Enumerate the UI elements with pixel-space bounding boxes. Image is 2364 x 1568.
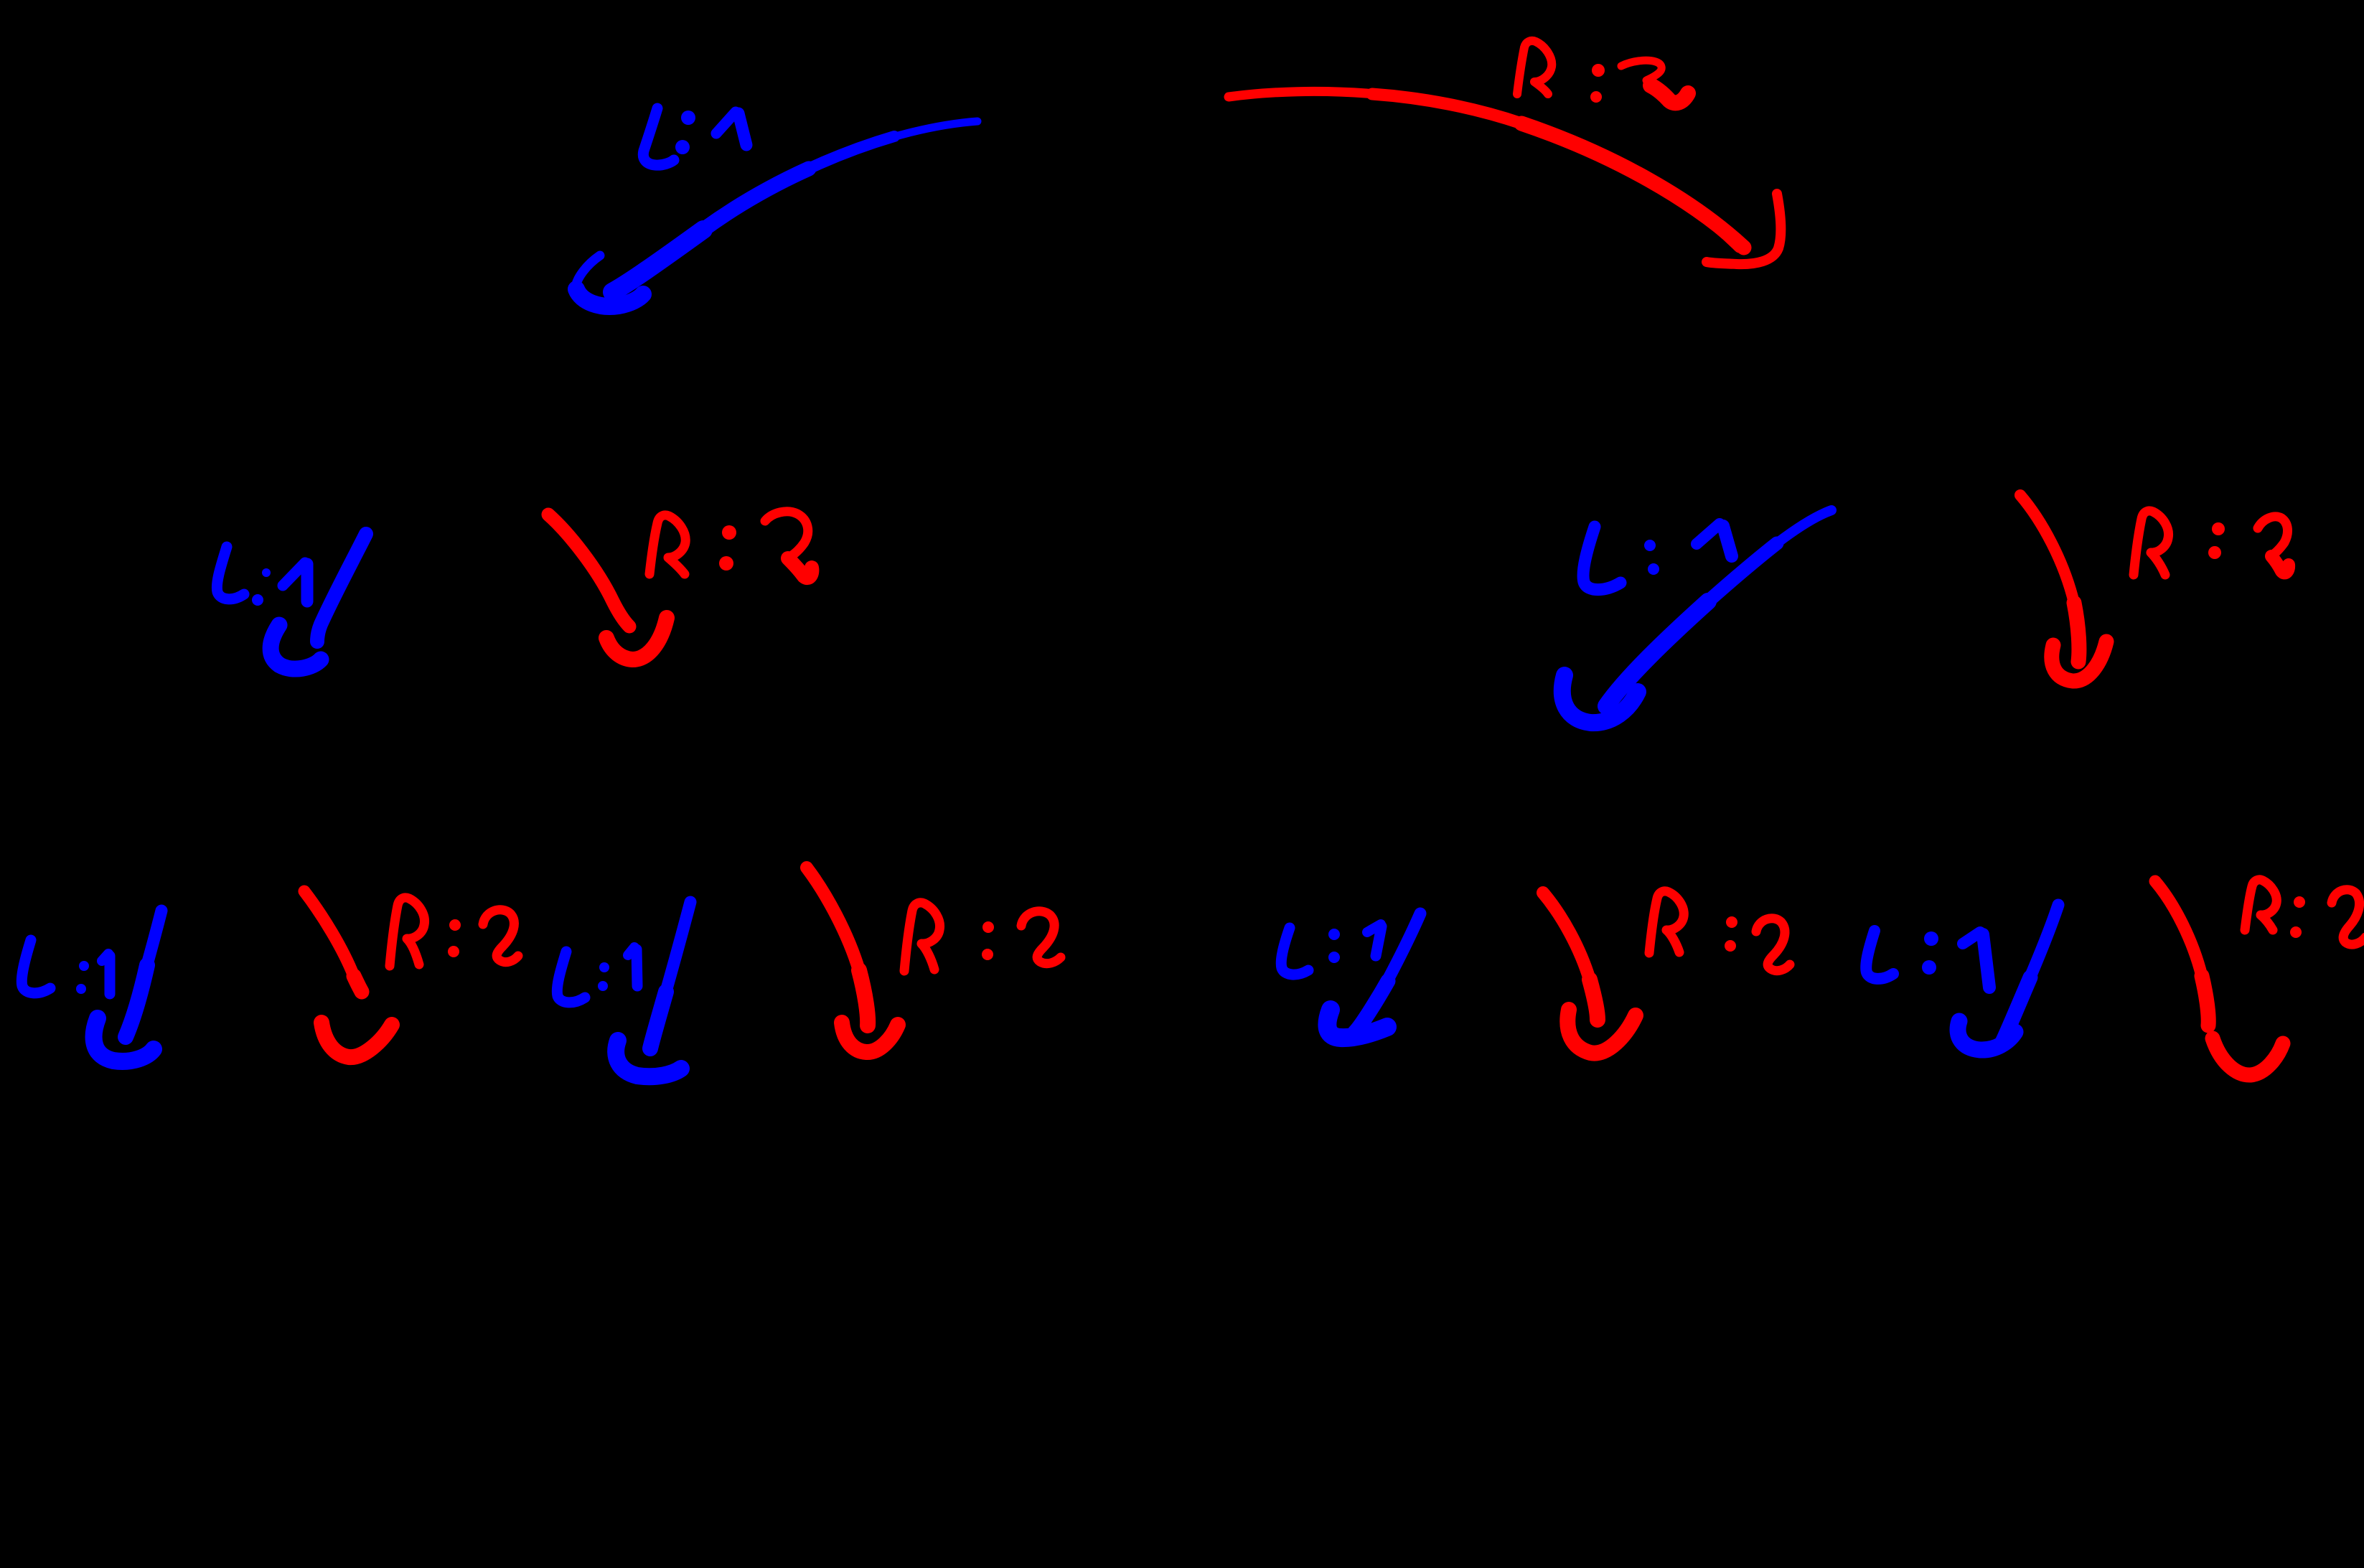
edge arrow grandchild 3 left (blue L) — [1327, 914, 1420, 1038]
edge arrow grandchild 3 right (red R) — [1543, 893, 1636, 1053]
edge arrow grandchild 4 right (red R) — [2155, 881, 2283, 1075]
edge arrow grandchild 1 left (blue L) — [94, 911, 161, 1061]
edge label root-right "R : 2" — [1517, 41, 1688, 103]
edge label "L : 1" (grandchild 4, left) — [1866, 931, 1989, 987]
edge label "L: 1" (right child, left edge) — [1583, 524, 1732, 590]
edge label "R:2" (grandchild 1, right) — [390, 898, 518, 966]
edge label "R:2" (grandchild 3, right) — [1649, 891, 1790, 971]
edge arrow left child to its right (red R) — [548, 515, 667, 659]
edge label "L:1" (grandchild 3, left) — [1281, 924, 1382, 975]
edge label "R : 2" (grandchild 4, right) — [2245, 880, 2364, 944]
edge arrow right child to its left (blue L) — [1562, 510, 1831, 723]
edge label root-left "L:1" — [643, 108, 746, 165]
edge label "L:1" (grandchild 2, left) — [557, 947, 637, 1003]
edge arrow grandchild 2 right (red R) — [807, 868, 898, 1052]
edge arrow left child to its left (blue L) — [271, 534, 366, 669]
edge label "R : 2" (right child, right edge) — [2134, 511, 2289, 575]
edge label "L:1" (grandchild 1, left) — [22, 940, 110, 994]
edge arrow root to right child (red R) — [1229, 91, 1781, 264]
edge label "R : 2" (grandchild 2, right) — [904, 903, 1061, 971]
edge label "R : 2" (left child, right edge) — [649, 512, 812, 578]
edge arrow right child to its right (red R) — [2020, 495, 2106, 681]
edge arrow root to left child (blue L) — [576, 121, 977, 306]
edge label "L:1" (left child, left edge) — [217, 547, 307, 606]
edge arrow grandchild 4 left (blue L) — [1958, 905, 2058, 1050]
edge arrow grandchild 1 right (red R) — [304, 891, 392, 1057]
edge arrow grandchild 2 left (blue L) — [616, 902, 690, 1076]
